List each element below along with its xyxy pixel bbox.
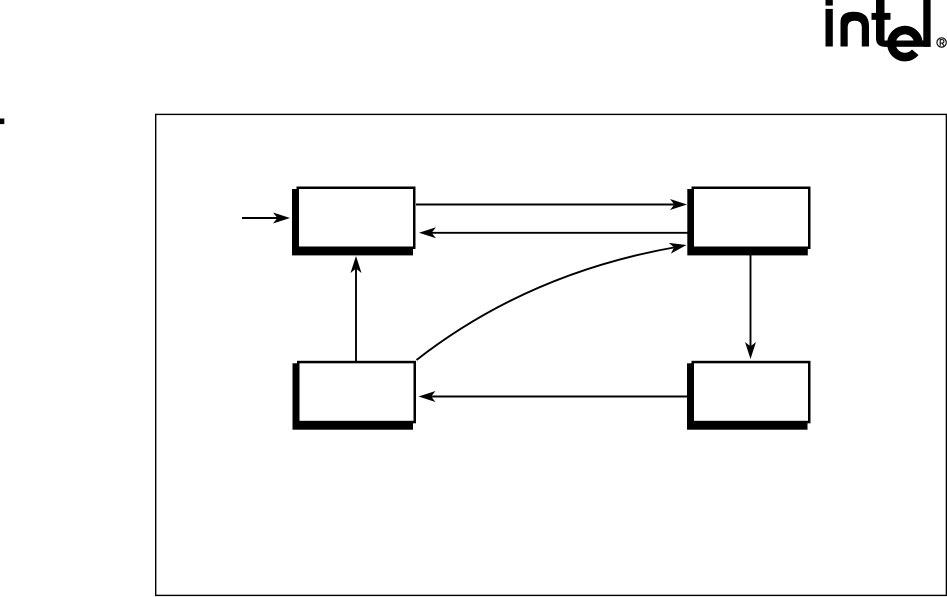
curved wire B3 to B2 — [417, 247, 677, 360]
box B2 — [693, 188, 810, 248]
logo letter e ring — [887, 26, 922, 62]
logo letter i — [826, 0, 833, 6]
box B3 — [298, 362, 415, 422]
arrow head into B2 (lower) — [669, 240, 688, 254]
arrow head into B1 (bottom) — [351, 256, 362, 273]
wire B2 to B1 — [429, 232, 688, 234]
arrow head into B1 — [419, 227, 436, 238]
margin tick mark — [0, 119, 4, 125]
wire B4 to B3 — [429, 396, 687, 398]
logo letter t stem with tail — [876, 0, 891, 47]
logo letter l — [923, 0, 930, 47]
registered trademark symbol — [937, 38, 946, 47]
box B4 shadow — [687, 363, 808, 429]
wire B3 to B1 — [355, 266, 357, 361]
box B3 shadow — [293, 363, 414, 429]
arrow head into B3 — [419, 391, 436, 402]
logo letter t crossbar — [872, 13, 891, 20]
figure frame — [156, 114, 947, 595]
wire B2 to B4 — [750, 249, 752, 349]
box B1 — [298, 188, 415, 248]
entry arrow head — [273, 213, 290, 224]
arrow head into B2 (top) — [670, 199, 687, 210]
box B1 shadow — [292, 189, 413, 255]
logo letter n — [841, 12, 870, 47]
box B4 — [693, 362, 810, 422]
intel logo — [826, 0, 947, 61]
entry arrow wire — [242, 217, 280, 219]
wire B1 to B2 — [416, 204, 676, 206]
arrow head into B4 (top) — [745, 342, 756, 359]
box B2 shadow — [687, 189, 808, 255]
logo baseline bar (e crossbar) — [884, 41, 931, 47]
